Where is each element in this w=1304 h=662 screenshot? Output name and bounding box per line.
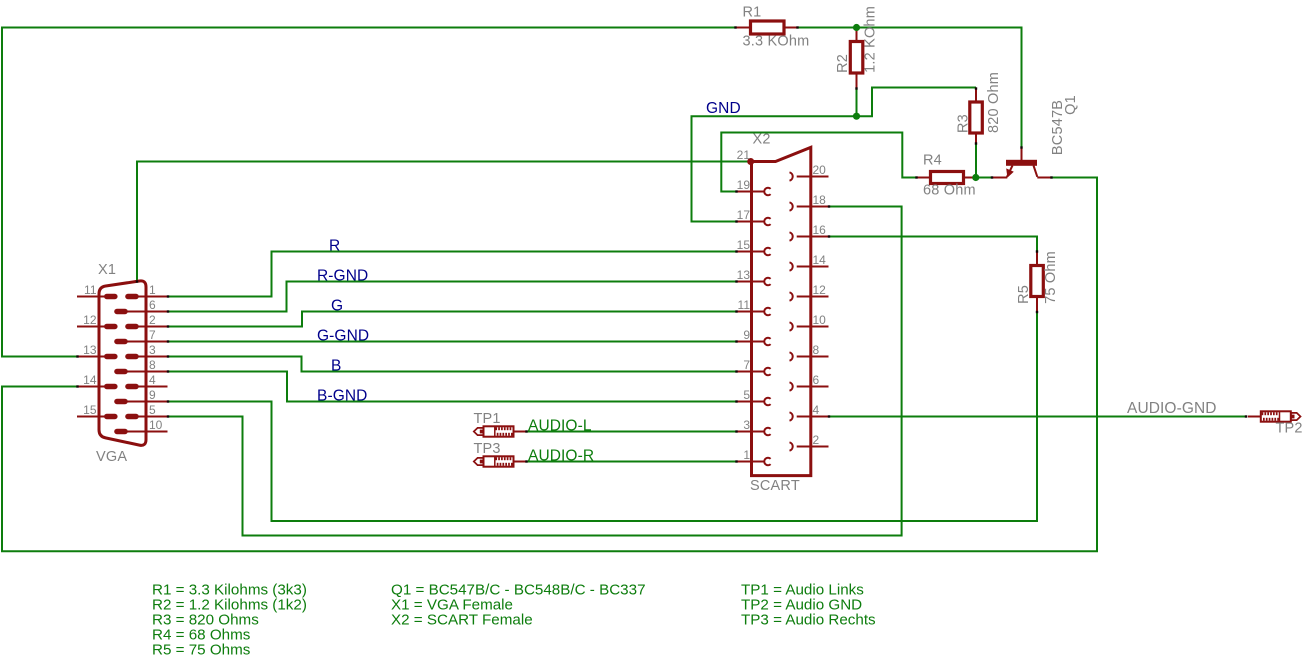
svg-text:75 Ohm: 75 Ohm <box>1043 251 1059 304</box>
svg-text:SCART: SCART <box>750 478 800 494</box>
svg-text:15: 15 <box>737 238 751 252</box>
svg-text:3: 3 <box>149 343 156 357</box>
wire net R <box>168 252 736 297</box>
svg-text:6: 6 <box>149 298 156 312</box>
wire net R1-left / VGA pin13 <box>2 28 736 357</box>
svg-text:9: 9 <box>149 388 156 402</box>
svg-text:B: B <box>331 358 341 375</box>
svg-text:13: 13 <box>83 343 97 357</box>
svg-text:7: 7 <box>743 358 750 372</box>
wire SCART pin16 to R5 top <box>829 237 1038 252</box>
svg-text:TP2: TP2 <box>1276 421 1303 437</box>
X1 pin pills middle column (pins 6-10) <box>114 309 128 434</box>
connector X2 SCART outline <box>752 147 811 475</box>
svg-text:TP1: TP1 <box>474 411 501 427</box>
transistor Q1 BC547B <box>992 148 1052 178</box>
svg-text:TP3 = Audio Rechts: TP3 = Audio Rechts <box>741 612 876 629</box>
svg-text:13: 13 <box>737 268 751 282</box>
svg-text:21: 21 <box>737 148 751 162</box>
svg-text:820 Ohm: 820 Ohm <box>986 72 1002 133</box>
legend column 3 <box>741 582 876 629</box>
svg-text:10: 10 <box>813 313 827 327</box>
svg-text:9: 9 <box>743 328 750 342</box>
wire SCART pin19 to R4 <box>721 133 916 192</box>
wire R3 bottom <box>975 144 977 178</box>
svg-text:3: 3 <box>743 418 750 432</box>
svg-text:4: 4 <box>813 403 820 417</box>
svg-text:AUDIO-GND: AUDIO-GND <box>1127 400 1217 417</box>
svg-text:R4: R4 <box>923 153 942 169</box>
legend column 2 <box>391 582 646 629</box>
resistor R1 <box>736 21 797 34</box>
wire net B <box>168 357 736 372</box>
X1 pin numbers right <box>149 283 163 432</box>
svg-text:4: 4 <box>149 373 156 387</box>
svg-text:Q1: Q1 <box>1063 95 1079 115</box>
svg-text:18: 18 <box>813 193 827 207</box>
svg-text:1.2 KOhm: 1.2 KOhm <box>862 6 878 73</box>
svg-text:TP3: TP3 <box>474 441 501 457</box>
X2 pin numbers right <box>813 163 827 447</box>
X2 pin21 junction dot <box>747 158 754 165</box>
svg-text:G: G <box>331 298 343 315</box>
svg-text:2: 2 <box>149 313 156 327</box>
svg-text:1: 1 <box>149 283 156 297</box>
svg-text:X2: X2 <box>753 132 771 148</box>
svg-text:5: 5 <box>149 403 156 417</box>
svg-text:12: 12 <box>813 283 827 297</box>
svg-text:68 Ohm: 68 Ohm <box>923 182 976 198</box>
test point TP3 audio jack <box>474 456 527 466</box>
svg-text:R1: R1 <box>743 5 762 21</box>
svg-text:11: 11 <box>84 283 97 297</box>
svg-text:16: 16 <box>813 223 827 237</box>
X2 pin numbers left <box>737 148 751 462</box>
svg-text:20: 20 <box>813 163 827 177</box>
svg-text:GND: GND <box>706 100 741 117</box>
svg-text:AUDIO-R: AUDIO-R <box>528 448 594 465</box>
svg-text:X1: X1 <box>98 262 116 278</box>
resistor R5 <box>1031 252 1044 313</box>
wire R2 bottom <box>856 89 858 117</box>
junction R1/R2 <box>853 24 860 31</box>
svg-text:R5: R5 <box>1016 285 1032 304</box>
svg-text:G-GND: G-GND <box>317 328 369 345</box>
svg-text:8: 8 <box>149 358 156 372</box>
wire net AUDIO-R <box>527 461 737 463</box>
wire GND net <box>692 116 857 221</box>
svg-text:11: 11 <box>738 298 751 312</box>
wire net G <box>168 312 736 327</box>
svg-text:5: 5 <box>743 388 750 402</box>
X1 pin pills left column (pins 11-15) <box>104 294 118 419</box>
wire VGA pin14 to Q1 collector (bottom line) <box>2 178 1097 552</box>
X1 pin numbers left <box>83 283 97 417</box>
svg-text:R5 = 75 Ohms: R5 = 75 Ohms <box>152 642 251 659</box>
test point TP2 audio jack <box>1248 411 1301 421</box>
X1 left pin stubs 11-15 <box>77 297 105 417</box>
svg-text:B-GND: B-GND <box>317 388 367 405</box>
wire VGA pin9 to R5 bottom <box>168 312 1037 521</box>
wire GND to R3 top <box>857 88 977 117</box>
junction GND/R2 <box>853 113 860 120</box>
test point TP1 audio jack <box>474 426 527 436</box>
svg-text:19: 19 <box>737 178 751 192</box>
svg-text:R2: R2 <box>835 54 851 73</box>
wire net B-GND <box>168 372 736 402</box>
wire end caps <box>76 26 1247 462</box>
svg-text:8: 8 <box>813 343 820 357</box>
svg-text:VGA: VGA <box>96 449 127 465</box>
svg-text:7: 7 <box>149 328 156 342</box>
svg-text:15: 15 <box>83 403 97 417</box>
svg-text:X2 = SCART Female: X2 = SCART Female <box>391 612 533 629</box>
wire SCART pin21 net <box>137 162 748 284</box>
X1 right pin stubs 1-10 <box>127 297 167 432</box>
svg-text:17: 17 <box>737 208 751 222</box>
svg-text:12: 12 <box>83 313 97 327</box>
resistor R4 <box>917 172 974 184</box>
legend column 1 <box>152 582 307 659</box>
svg-text:2: 2 <box>813 433 820 447</box>
svg-text:1: 1 <box>743 448 750 462</box>
svg-text:10: 10 <box>149 418 163 432</box>
svg-text:6: 6 <box>813 373 820 387</box>
wire net AUDIO-GND <box>829 416 1247 418</box>
svg-text:AUDIO-L: AUDIO-L <box>528 418 592 435</box>
svg-text:R-GND: R-GND <box>317 268 368 285</box>
connector X1 VGA outline <box>99 281 146 445</box>
wire net AUDIO-L <box>527 431 737 433</box>
X2 right pin stubs and contacts (20,18..2) <box>790 172 829 450</box>
wire net G-GND <box>168 341 736 343</box>
wire R4/R3 junction to Q1 emitter <box>976 177 992 179</box>
X1 pin pills right column (pins 1-5) <box>125 294 139 419</box>
wire net R-GND <box>168 282 736 312</box>
wire VGA pin5 to SCART pin18 <box>168 207 902 536</box>
svg-text:R3: R3 <box>955 114 971 133</box>
svg-text:14: 14 <box>83 373 97 387</box>
svg-text:3.3 KOhm: 3.3 KOhm <box>743 34 810 50</box>
wire R1 right to Q1 base <box>797 28 1022 148</box>
svg-text:R: R <box>329 238 340 255</box>
resistor R3 <box>970 89 983 144</box>
resistor R2 <box>850 29 863 89</box>
junction R3/R4/Q1 <box>972 174 979 181</box>
X2 left pin stubs and contacts (21,19..1) <box>736 188 771 466</box>
svg-text:14: 14 <box>813 253 827 267</box>
